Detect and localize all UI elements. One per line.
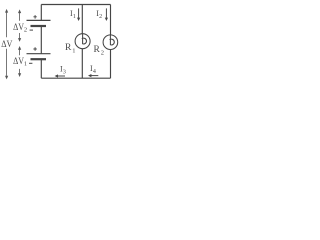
- wire right branch lower: [110, 50, 112, 79]
- svg-text:4: 4: [93, 69, 96, 75]
- svg-text:R: R: [65, 43, 72, 53]
- battery V1 (bottom) long plate: [27, 53, 51, 55]
- battery V2 (top) long plate: [27, 19, 51, 21]
- deltaV total arrow: [5, 9, 8, 80]
- svg-text:2: 2: [101, 50, 104, 57]
- wire left branch upper: [40, 5, 42, 21]
- lightbulb R1: [75, 34, 90, 49]
- svg-text:2: 2: [99, 14, 102, 20]
- wire middle branch upper: [81, 5, 83, 34]
- lightbulb R2: [103, 35, 118, 50]
- svg-text:R: R: [94, 45, 101, 55]
- svg-text:ΔV: ΔV: [13, 23, 24, 33]
- svg-text:2: 2: [24, 26, 27, 33]
- wire left branch lower: [40, 59, 42, 78]
- current arrow I4: [88, 74, 98, 77]
- wire bottom: [41, 77, 110, 79]
- svg-text:ΔV: ΔV: [13, 57, 24, 67]
- battery V2 short thick plate: [31, 25, 47, 27]
- current arrow I3: [55, 74, 65, 77]
- battery V1 short thick plate: [31, 58, 47, 60]
- wire between batteries: [40, 27, 42, 54]
- svg-text:3: 3: [63, 70, 66, 76]
- svg-text:1: 1: [72, 48, 75, 55]
- deltaV1 arrow: [18, 46, 21, 77]
- wire middle branch lower: [81, 49, 83, 78]
- svg-text:ΔV: ΔV: [1, 40, 12, 50]
- current arrow I1: [77, 8, 80, 21]
- svg-text:1: 1: [24, 60, 27, 67]
- wire right branch upper: [110, 5, 112, 36]
- svg-text:1: 1: [73, 14, 76, 20]
- battery V1 minus sign: [29, 62, 32, 64]
- battery V2 plus sign: [33, 15, 36, 19]
- deltaV2 arrow: [18, 9, 21, 41]
- current arrow I2: [105, 8, 108, 21]
- battery V1 plus sign: [33, 47, 36, 51]
- battery V2 minus sign: [30, 29, 33, 31]
- wire top: [41, 4, 110, 6]
